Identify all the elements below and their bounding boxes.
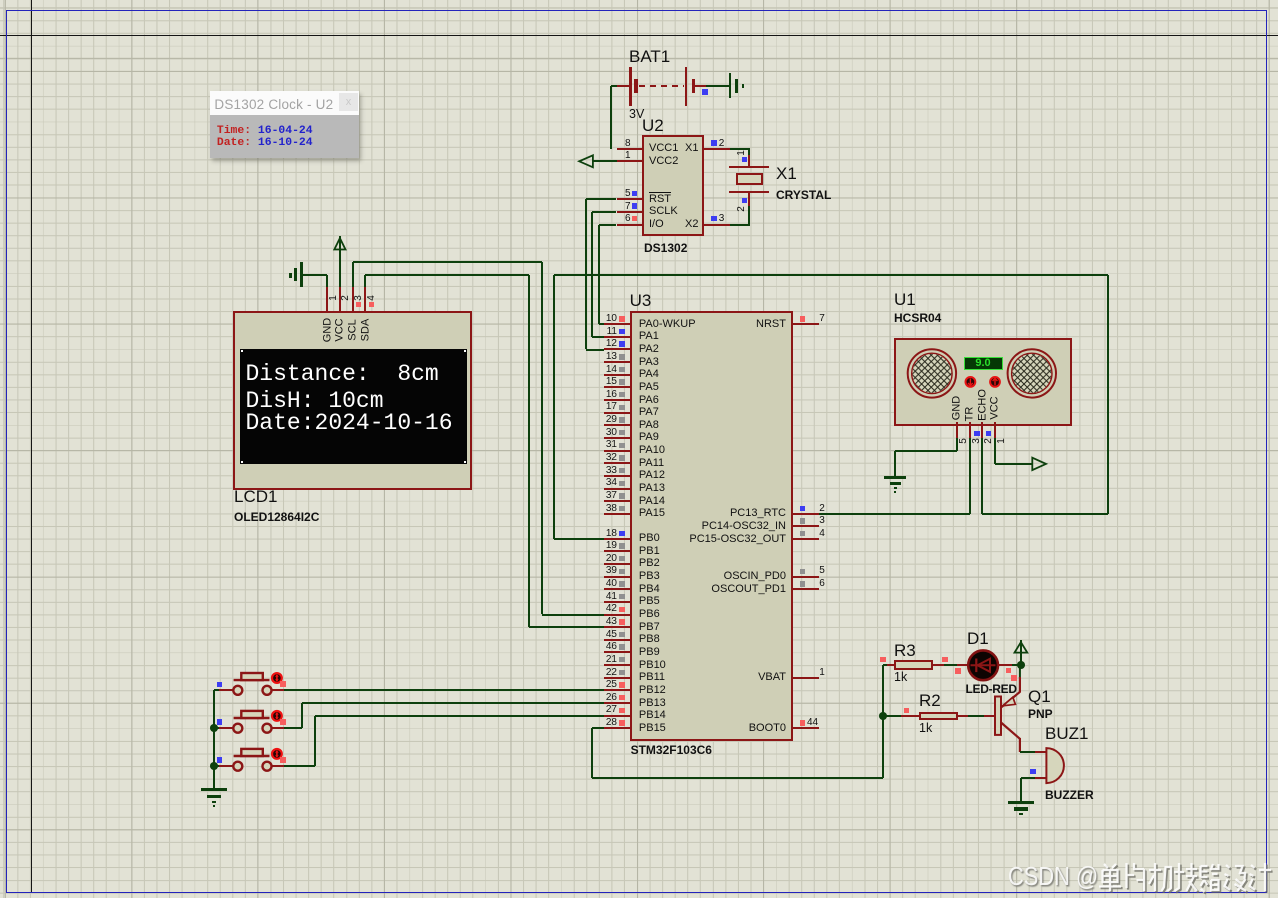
wire net R-column	[882, 665, 884, 778]
wire net SCL vert long	[541, 262, 543, 614]
U3 pin number 4	[819, 529, 825, 539]
wire R3 right lead	[933, 664, 945, 666]
wire D1 right lead	[998, 664, 1012, 666]
button S3 red marker	[280, 757, 286, 763]
wire net button bus	[213, 690, 215, 788]
U3 pin number 40	[594, 579, 617, 589]
U1 pin name GND	[952, 396, 963, 420]
crystal pin 2 marker	[742, 198, 747, 203]
LCD pin name VCC	[335, 318, 346, 341]
U3 pin 16 marker	[619, 392, 624, 397]
U3 pin number 38	[594, 504, 617, 514]
U3 pin name PB9	[639, 647, 660, 658]
U3 pin number 37	[594, 491, 617, 501]
wire U3 pin 43	[604, 626, 630, 628]
U3 pin number 28	[594, 718, 617, 728]
BUZ1 pin blue marker	[1030, 769, 1035, 774]
U3 pin number 39	[594, 566, 617, 576]
U3 pin 10 marker	[619, 316, 624, 321]
wire U1 pin 3	[969, 422, 971, 438]
U3 pin 19 marker	[619, 543, 624, 548]
wire net btn2 horiz	[284, 727, 303, 729]
U2 pin number 1	[619, 151, 631, 161]
wire bat-left-vert	[610, 86, 612, 149]
U1 pin name VCC	[990, 396, 1001, 419]
wire U2 pin 1	[617, 160, 643, 162]
U3 pin 17 marker	[619, 405, 624, 410]
wire net U1 vcc vert	[994, 438, 996, 464]
U3 pin number 33	[594, 466, 617, 476]
U3 pin name PA6	[639, 395, 659, 406]
wire net TR pin vert	[969, 438, 971, 514]
wire net R3 left green	[883, 664, 887, 666]
U3 pin 46 marker	[619, 644, 624, 649]
ground at buttons	[201, 788, 228, 791]
U3 pin number 19	[594, 541, 617, 551]
wire net bus to btn2	[214, 727, 219, 729]
marker R3 right marker	[942, 657, 947, 662]
wire U3 pin 4	[793, 538, 819, 540]
U3 pin number 44	[807, 718, 818, 728]
wire net SCL to PB6	[542, 614, 603, 616]
wire net D1 power vert	[1020, 640, 1022, 666]
wire net btn3 vert	[314, 716, 316, 767]
label HCSR04	[894, 312, 941, 324]
wire net PB0 into pin	[554, 538, 604, 540]
LCD pin number 4	[367, 295, 377, 301]
LCD screen	[240, 349, 467, 463]
wire U2 pin 7	[617, 211, 643, 213]
label DS1302	[644, 242, 687, 254]
wire net ECHO pin vert	[981, 438, 983, 514]
wire button S3 left lead	[219, 765, 233, 767]
U3 pin name PB3	[639, 571, 660, 582]
wire net bus to btn3	[214, 765, 219, 767]
U1 distance display 9.0	[964, 357, 1003, 370]
wire U3 pin 1	[793, 677, 819, 679]
crystal body	[736, 173, 763, 186]
wire net X1 top vert	[748, 149, 750, 156]
wire R3 left lead	[887, 664, 895, 666]
marker R3 right2 marker	[955, 668, 960, 673]
wire net R2 to Q1	[968, 715, 984, 717]
U3 pin name PA13	[639, 483, 665, 494]
U3 pin 44 marker	[800, 720, 805, 725]
wire net Q1 to BUZ1	[1020, 751, 1035, 753]
U3 pin 32 marker	[619, 455, 624, 460]
U3 pin 25 marker	[619, 682, 624, 687]
wire U3 pin 26	[604, 702, 630, 704]
wire U3 pin 20	[604, 563, 630, 565]
U3 pin number 21	[594, 655, 617, 665]
U2 pin number 6	[619, 214, 631, 224]
wire net PC13-TR horiz	[819, 513, 970, 515]
U3 pin number 5	[819, 566, 825, 576]
LCD pin name GND	[322, 317, 333, 341]
U1 pin number 3	[972, 439, 982, 445]
wire net SCL vert at pin	[352, 262, 354, 287]
wire U3 pin 2	[793, 513, 819, 515]
wire U3 pin 11	[604, 336, 630, 338]
U2 pin name 1	[649, 156, 678, 167]
wire U3 pin 22	[604, 677, 630, 679]
LCD screen text line3	[246, 412, 453, 435]
wire U3 pin 42	[604, 614, 630, 616]
wire net SDA vert at pin	[364, 275, 366, 287]
U3 pin name OSCOUT_PD1	[648, 584, 786, 595]
U1 pin number 1	[997, 439, 1007, 445]
marker R2 left marker	[904, 708, 909, 713]
ground (rotated) at battery	[729, 73, 732, 99]
LCD pin number 2	[341, 295, 351, 301]
wire bat-left-horiz	[611, 85, 618, 87]
U2 pin name X1	[685, 143, 697, 154]
U3 pin number 16	[594, 390, 617, 400]
label R3	[894, 644, 916, 658]
wire LCD pin 3	[352, 287, 354, 311]
U3 pin name PA5	[639, 382, 659, 393]
wire U3 pin 7	[793, 323, 819, 325]
marker D1 right2 marker	[1011, 675, 1016, 680]
label BAT1	[629, 50, 670, 64]
wire U2 pin 8	[617, 148, 643, 150]
U3 pin number 12	[594, 339, 617, 349]
wire U1 pin 1	[994, 422, 996, 438]
wire net SDA to PB7	[529, 626, 603, 628]
U3 pin 29 marker	[619, 417, 624, 422]
U1 pin number 5	[959, 439, 969, 445]
U2 pin number 7	[619, 202, 631, 212]
wire net ECHO horiz	[982, 513, 1108, 515]
wire U2 pin 5	[617, 198, 643, 200]
wire U3 pin 46	[604, 651, 630, 653]
U2 pin name X2	[685, 219, 697, 230]
U2 pin 2 marker	[711, 140, 716, 145]
U3 pin 3 marker	[800, 518, 805, 523]
U3 pin number 30	[594, 428, 617, 438]
U3 pin number 31	[594, 440, 617, 450]
label Q1	[1028, 690, 1051, 704]
U2 pin number 3	[719, 214, 725, 224]
crystal pin 1 marker	[742, 157, 747, 162]
U2 pin number 2	[719, 139, 725, 149]
wire U3 pin 44	[793, 727, 819, 729]
label X1	[776, 167, 797, 181]
U2 pin name 5	[649, 194, 671, 205]
crystal plate bottom	[729, 191, 769, 193]
crystal pin number 2	[737, 206, 747, 212]
U3 pin 2 marker	[800, 506, 805, 511]
wire U3 pin 12	[604, 348, 630, 350]
label PNP	[1028, 708, 1053, 720]
wire net PB15 out	[592, 727, 604, 729]
U3 pin name PA11	[639, 458, 664, 469]
wire button S2 left lead	[219, 727, 233, 729]
U3 pin number 45	[594, 630, 617, 640]
label R2	[919, 694, 941, 708]
U3 pin name PB7	[639, 622, 660, 633]
U1 pin name ECHO	[977, 389, 988, 421]
button S3 blue marker	[217, 757, 222, 762]
microcontroller U3 STM32F103C6 body	[630, 311, 793, 741]
wire net SDA vert long	[528, 275, 530, 627]
wire button S1 left lead	[219, 689, 233, 691]
U3 pin name PA10	[639, 445, 665, 456]
wire net X2 bottom	[730, 224, 750, 226]
U3 pin 41 marker	[619, 594, 624, 599]
wire battery right lead	[695, 85, 706, 87]
U3 pin number 14	[594, 365, 617, 375]
wire net PB0 vert	[553, 275, 555, 538]
wire net bus to btn1	[214, 689, 219, 691]
U2 pin 6 marker	[632, 216, 637, 221]
U3 pin number 10	[594, 314, 617, 324]
value R2 1k	[919, 722, 932, 734]
U3 pin number 6	[819, 579, 825, 589]
wire net btn3 horiz	[284, 765, 316, 767]
label BUZZER	[1045, 789, 1094, 801]
U3 pin number 26	[594, 693, 617, 703]
U2 pin number 8	[619, 139, 631, 149]
U3 pin 27 marker	[619, 708, 624, 713]
U3 pin name PB15	[639, 723, 666, 734]
U2 pin name 8	[649, 143, 678, 154]
wire U3 pin 34	[604, 488, 630, 490]
U3 pin number 25	[594, 680, 617, 690]
U2 pin 7 marker	[632, 203, 637, 208]
wire LCD pin 2	[339, 287, 341, 311]
U2 pin 5 marker	[632, 191, 637, 196]
wire U3 pin 27	[604, 715, 630, 717]
wire net SDA horiz	[365, 274, 529, 276]
wire net U1 vcc horiz	[995, 463, 1033, 465]
U3 pin 34 marker	[619, 481, 624, 486]
wire U3 pin 3	[793, 525, 819, 527]
U3 pin name PB12	[639, 685, 666, 696]
wire net ECHO right vert	[1107, 275, 1109, 514]
LCD pin name SDA	[360, 318, 371, 341]
label U2	[642, 119, 664, 133]
wire net U1 gnd vert	[956, 438, 958, 451]
U3 pin 12 marker	[619, 341, 624, 346]
wire BUZ1 top lead	[1035, 751, 1046, 753]
U3 pin name PA15	[639, 508, 665, 519]
U3 pin name PA12	[639, 470, 665, 481]
wire R2 left lead	[901, 715, 919, 717]
wire net IO horiz top	[599, 224, 617, 226]
wire U3 pin 37	[604, 500, 630, 502]
wire BUZ1 bottom lead	[1035, 777, 1046, 779]
wire U3 pin 29	[604, 424, 630, 426]
wire net X2 bot vert	[748, 206, 750, 224]
wire U3 pin 21	[604, 664, 630, 666]
U2 pin 3 marker	[711, 216, 716, 221]
wire net PB0-ECHO top	[554, 274, 1109, 276]
U3 pin number 7	[819, 314, 825, 324]
marker D1 right marker	[1006, 668, 1011, 673]
crystal plate top	[729, 166, 769, 168]
U3 pin 38 marker	[619, 506, 624, 511]
wire net U1 gnd down	[894, 451, 896, 476]
U3 pin name PA14	[639, 496, 665, 507]
value 3V	[629, 108, 644, 120]
U3 pin name PB2	[639, 558, 660, 569]
label STM32F103C6	[631, 744, 712, 756]
U3 pin name PB0	[639, 533, 660, 544]
black template line horizontal	[0, 35, 1278, 36]
U3 pin name PA4	[639, 369, 659, 380]
wire U3 pin 38	[604, 513, 630, 515]
wire U3 pin 33	[604, 475, 630, 477]
ground at buzzer	[1008, 801, 1035, 804]
popup DS1302 Clock - U2	[210, 91, 359, 159]
wire U3 pin 19	[604, 550, 630, 552]
U3 pin name PC13_RTC	[648, 508, 786, 519]
wire net R3 to D1	[944, 664, 957, 666]
wire U3 pin 6	[793, 588, 819, 590]
wire net SCLK vert	[591, 212, 593, 337]
wire net LCD vcc vert	[339, 236, 341, 288]
U3 pin name PB1	[639, 546, 660, 557]
wire button S3 right lead	[272, 765, 284, 767]
wire U3 pin 10	[604, 323, 630, 325]
U3 pin 37 marker	[619, 493, 624, 498]
U3 pin number 22	[594, 668, 617, 678]
wire net IO vert	[598, 225, 600, 325]
U3 pin 21 marker	[619, 657, 624, 662]
wire net LCD gnd vert	[326, 275, 328, 287]
U3 pin name PC15-OSC32_OUT	[648, 534, 786, 545]
wire net RST to PA2	[586, 349, 604, 351]
U3 pin number 43	[594, 617, 617, 627]
U3 pin name PB6	[639, 609, 660, 620]
wire U3 pin 25	[604, 689, 630, 691]
U3 pin name PB10	[639, 660, 666, 671]
U3 pin number 2	[819, 504, 825, 514]
black template line vertical	[31, 0, 32, 893]
button S1 red marker	[280, 681, 286, 687]
wire D1 left lead	[957, 664, 969, 666]
wire U2 pin 3	[704, 224, 730, 226]
U3 pin name PB13	[639, 698, 666, 709]
wire net IO to PA0	[599, 323, 604, 325]
wire net D1 to junction	[1012, 664, 1021, 666]
wire net R2 left green	[883, 715, 902, 717]
U3 pin name PB11	[639, 672, 665, 683]
U3 pin name PA0-WKUP	[639, 319, 696, 330]
LCD pin3 marker	[356, 302, 361, 307]
U3 pin 22 marker	[619, 670, 624, 675]
U3 pin 31 marker	[619, 443, 624, 448]
U3 pin number 27	[594, 705, 617, 715]
U1 pin number 2	[984, 439, 994, 445]
U3 pin 42 marker	[619, 607, 624, 612]
U3 pin 5 marker	[800, 569, 805, 574]
LCD screen text line2	[246, 390, 384, 413]
label CRYSTAL	[776, 189, 831, 201]
U3 pin 15 marker	[619, 379, 624, 384]
wire net SCL horiz	[353, 261, 543, 263]
wire net PB15 right	[592, 777, 883, 779]
button S2 red marker	[280, 719, 286, 725]
wire net PB15 down	[591, 728, 593, 778]
U3 pin number 46	[594, 642, 617, 652]
U3 pin 11 marker	[619, 329, 624, 334]
wire U3 pin 39	[604, 576, 630, 578]
U2 pin number 5	[619, 189, 631, 199]
battery BAT1 cell1 short plate	[634, 79, 637, 93]
U1 TR pin marker	[974, 431, 979, 436]
label U3	[630, 294, 652, 308]
label D1	[967, 632, 989, 646]
wire U3 pin 18	[604, 538, 630, 540]
U3 pin name VBAT	[648, 672, 786, 683]
wire u2-vcc2-wire	[593, 160, 617, 162]
wire U2 pin 6	[617, 224, 643, 226]
wire U3 pin 30	[604, 437, 630, 439]
wire Q1 base lead	[984, 715, 995, 717]
wire net btn2 to PB13	[302, 702, 603, 704]
U3 pin number 32	[594, 453, 617, 463]
op-chip U2 DS1302 body	[642, 135, 704, 235]
U3 pin number 1	[819, 668, 825, 678]
wire net btn1 to PB12	[284, 689, 604, 691]
U3 pin 40 marker	[619, 581, 624, 586]
battery dashed link	[639, 85, 684, 87]
wire net BUZ1 gnd horiz	[1021, 777, 1035, 779]
wire U3 pin 15	[604, 386, 630, 388]
U3 pin name PB14	[639, 710, 666, 721]
U3 pin name PC14-OSC32_IN	[648, 521, 786, 532]
U3 pin number 17	[594, 402, 617, 412]
LCD screen corner dots	[241, 350, 243, 352]
U3 pin name PA1	[639, 331, 659, 342]
U3 pin name BOOT0	[648, 723, 786, 734]
U3 pin 14 marker	[619, 367, 624, 372]
wire U3 pin 17	[604, 412, 630, 414]
wire U2 pin 2	[704, 148, 730, 150]
U3 pin name PA2	[639, 344, 659, 355]
U3 pin 33 marker	[619, 468, 624, 473]
junction R2 junction	[879, 712, 887, 720]
U3 pin name OSCIN_PD0	[648, 571, 786, 582]
U3 pin 4 marker	[800, 531, 805, 536]
U3 pin 20 marker	[619, 556, 624, 561]
label BUZ1	[1045, 727, 1088, 741]
junction button bus row2	[210, 724, 218, 732]
wire button S2 right lead	[272, 727, 284, 729]
crystal pin number 1	[737, 150, 747, 156]
U3 pin name PB8	[639, 634, 660, 645]
marker R3 left marker	[880, 657, 885, 662]
U3 pin number 15	[594, 377, 617, 387]
U3 pin 39 marker	[619, 569, 624, 574]
U3 pin number 42	[594, 604, 617, 614]
junction button bus row3	[210, 762, 218, 770]
LCD pin4 marker	[369, 302, 374, 307]
battery BAT1 cell2 long plate	[685, 67, 687, 106]
U3 pin number 3	[819, 516, 825, 526]
wire U1 pin 5	[956, 422, 958, 438]
wire U3 pin 45	[604, 639, 630, 641]
wire net BUZ1 gnd vert	[1020, 778, 1022, 801]
U3 pin 18 marker	[619, 531, 624, 536]
wire net RST horiz top	[586, 198, 617, 200]
LCD screen text line1	[246, 363, 439, 386]
battery BAT1 cell2 short plate	[692, 79, 695, 93]
wire button S1 right lead	[272, 689, 284, 691]
U3 pin name NRST	[648, 319, 786, 330]
